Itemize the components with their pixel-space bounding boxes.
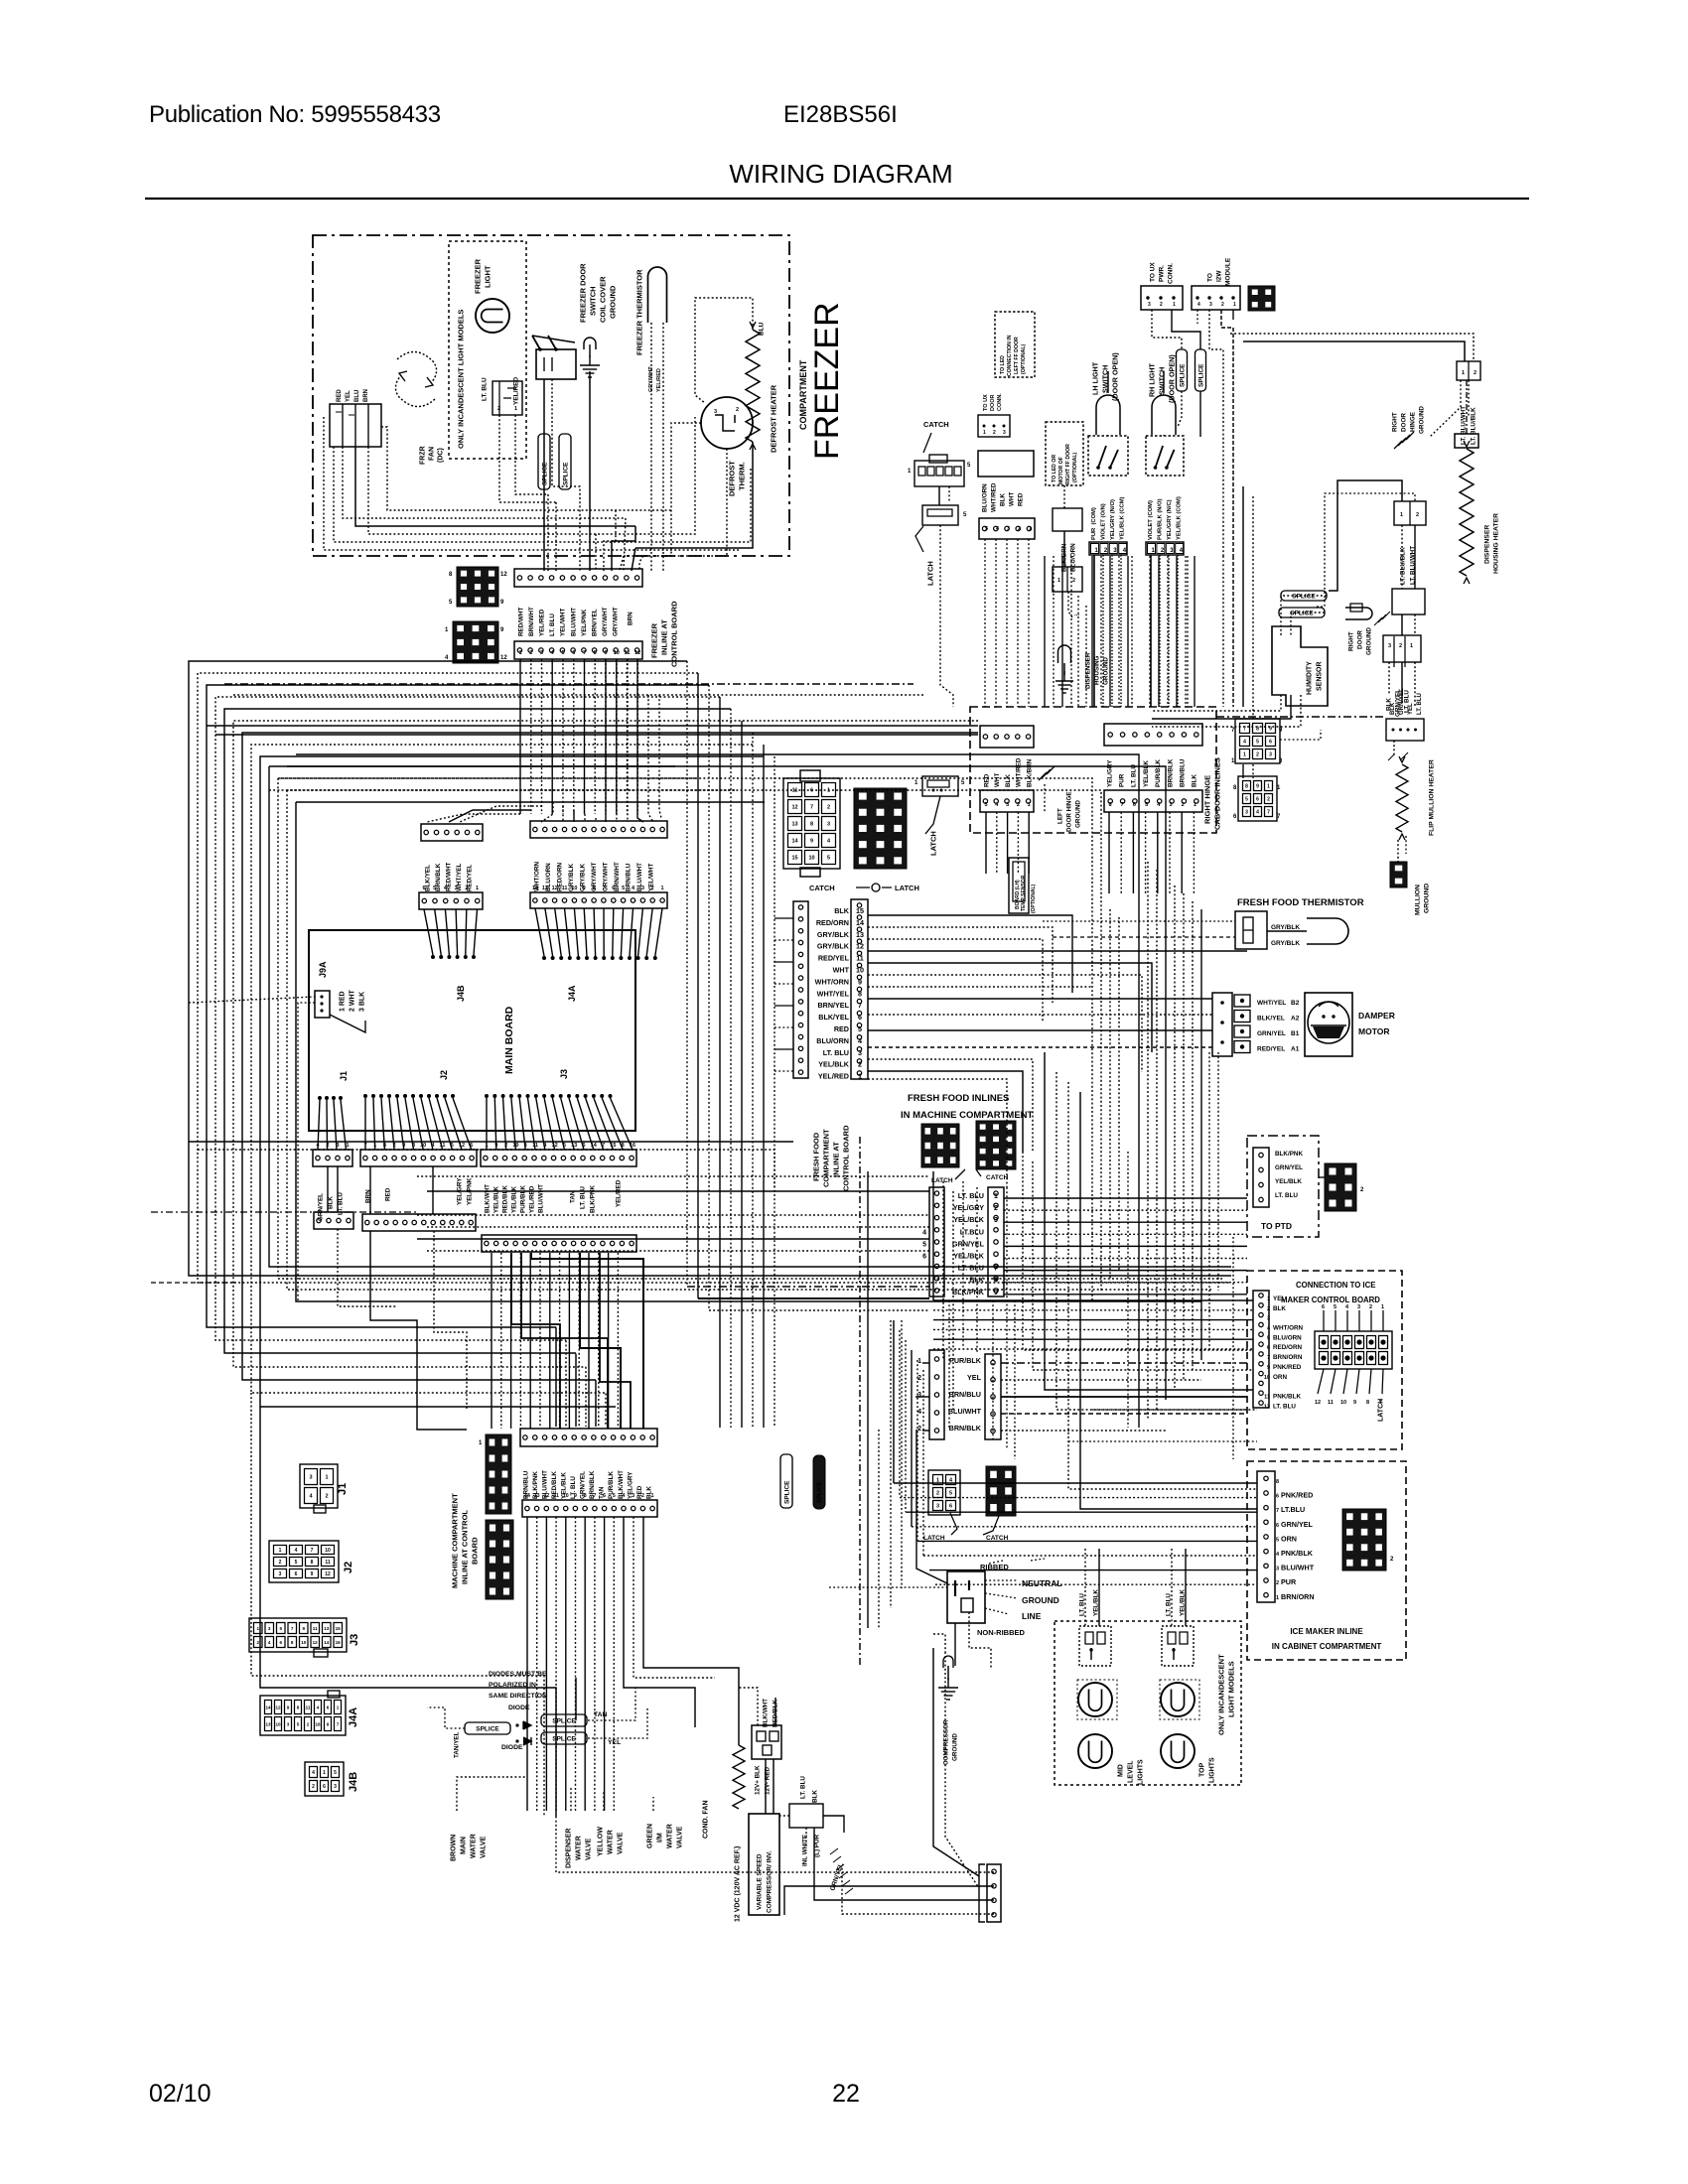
label machine compartment inline <box>451 1493 480 1588</box>
freezer inline lower strip <box>514 641 642 659</box>
svg-text:EI28BS56I: EI28BS56I <box>783 101 898 128</box>
ff thermistor connector <box>1235 911 1267 949</box>
svg-text:2: 2 <box>1416 512 1419 518</box>
svg-text:5: 5 <box>451 1143 454 1149</box>
svg-text:7: 7 <box>1243 727 1246 733</box>
svg-text:2: 2 <box>325 1494 328 1500</box>
svg-text:5: 5 <box>1276 1537 1279 1543</box>
damper connector <box>1212 993 1250 1056</box>
J1 wire labels <box>317 1192 344 1221</box>
svg-text:LT. BLU: LT. BLU <box>579 1186 586 1209</box>
cab-door right upper strip <box>1104 724 1202 746</box>
svg-text:1: 1 <box>325 1475 328 1481</box>
lt blu wht connector <box>1457 361 1480 380</box>
wire ff9 down verticals <box>949 1181 1015 1459</box>
wire switch drops to cab-door box <box>1045 556 1195 707</box>
machine inline upper strip <box>520 1429 657 1446</box>
svg-text:FREEZER: FREEZER <box>808 302 846 460</box>
svg-text:8: 8 <box>1256 727 1259 733</box>
label fresh food compartment inline <box>812 1125 851 1191</box>
svg-text:GROUND: GROUND <box>1022 1595 1059 1605</box>
svg-text:1: 1 <box>914 780 918 786</box>
label to ux pwr conn <box>1149 262 1174 284</box>
grn-yel hatch <box>830 1848 853 1894</box>
svg-text:5: 5 <box>295 1560 298 1566</box>
label mullion ground <box>1414 884 1430 915</box>
svg-text:BLK/YEL: BLK/YEL <box>818 1013 849 1022</box>
svg-text:12: 12 <box>500 572 507 578</box>
svg-text:J1: J1 <box>339 1071 349 1081</box>
wire elbow rows to ff9 <box>687 1287 929 1310</box>
svg-text:BLU/ORN: BLU/ORN <box>816 1036 849 1045</box>
svg-text:BLU: BLU <box>354 390 360 402</box>
rh switch pin strip <box>1146 542 1184 555</box>
svg-text:SENSOR: SENSOR <box>1317 661 1324 691</box>
svg-text:3: 3 <box>287 1722 290 1727</box>
svg-text:TOP: TOP <box>1199 1762 1206 1777</box>
svg-text:LT. BLU/BLK: LT. BLU/BLK <box>1470 407 1477 445</box>
svg-text:1: 1 <box>1194 802 1196 808</box>
svg-text:MACHINE COMPARTMENT: MACHINE COMPARTMENT <box>451 1493 460 1588</box>
svg-text:13: 13 <box>791 822 797 828</box>
flip mullion connector <box>1386 719 1424 741</box>
svg-text:14: 14 <box>791 839 798 845</box>
svg-text:4: 4 <box>312 1770 315 1776</box>
svg-text:ONLY INCANDESCENT LIGHT MODELS: ONLY INCANDESCENT LIGHT MODELS <box>457 310 466 449</box>
wire lh feeds <box>1094 555 1178 707</box>
svg-text:7: 7 <box>363 1143 366 1149</box>
svg-text:4: 4 <box>1243 740 1246 746</box>
lh switch pin strip <box>1089 542 1127 555</box>
svg-text:YEL/WHT: YEL/WHT <box>560 609 567 636</box>
svg-text:GRY/BLK: GRY/BLK <box>817 942 850 951</box>
cab-door 3x3 grid upper <box>1231 719 1283 764</box>
labels lt blu blk inl <box>799 1776 818 1803</box>
svg-text:BLU/WHT: BLU/WHT <box>570 608 577 636</box>
svg-text:3: 3 <box>994 1217 998 1224</box>
svg-text:13: 13 <box>265 1722 271 1727</box>
svg-text:BRN/BLK: BRN/BLK <box>1167 758 1174 787</box>
svg-text:12: 12 <box>634 650 640 656</box>
svg-text:FLIP MULLION HEATER: FLIP MULLION HEATER <box>1428 759 1435 836</box>
svg-text:BOARD (LH): BOARD (LH) <box>1015 880 1021 909</box>
svg-text:14: 14 <box>532 886 539 891</box>
label grn-wht yel-red small <box>648 366 662 392</box>
svg-text:16: 16 <box>315 1722 321 1727</box>
svg-text:12: 12 <box>552 886 558 891</box>
svg-text:3: 3 <box>334 1784 337 1790</box>
svg-text:1: 1 <box>337 1706 340 1710</box>
svg-text:J2: J2 <box>439 1070 449 1080</box>
svg-text:WHT/RED: WHT/RED <box>990 482 997 512</box>
label right door hinge ground top <box>1391 406 1425 434</box>
svg-text:5: 5 <box>561 650 564 656</box>
svg-text:CONTROL BOARD: CONTROL BOARD <box>670 601 679 667</box>
svg-text:02/10: 02/10 <box>149 2080 211 2108</box>
svg-text:5: 5 <box>1245 797 1248 803</box>
label coil cover ground <box>599 276 618 323</box>
svg-text:CONNECTION IN: CONNECTION IN <box>1007 335 1013 376</box>
freezer splice pills <box>538 434 571 489</box>
svg-text:INLINE AT CONTROL: INLINE AT CONTROL <box>461 1510 470 1584</box>
wire latch top lead <box>925 796 940 834</box>
svg-text:LEFT: LEFT <box>1056 808 1063 824</box>
svg-text:11: 11 <box>532 1143 538 1149</box>
latch connector mid <box>922 505 967 525</box>
svg-text:HUMIDITY: HUMIDITY <box>1307 661 1314 695</box>
svg-text:J3: J3 <box>559 1069 569 1079</box>
svg-text:5: 5 <box>967 463 971 469</box>
splice left <box>1177 349 1188 391</box>
svg-text:INL WHITE: INL WHITE <box>801 1835 808 1866</box>
svg-text:3: 3 <box>714 409 717 415</box>
temp sensor board box <box>1009 858 1037 913</box>
svg-text:3: 3 <box>1169 802 1172 808</box>
svg-text:9: 9 <box>583 886 586 891</box>
cab-door left upper strip <box>980 726 1034 748</box>
label fresh food inlines in machine compartment <box>901 1093 1034 1121</box>
wire right door ground drop <box>1430 380 1469 437</box>
svg-text:1: 1 <box>1029 526 1032 532</box>
svg-text:DOOR: DOOR <box>990 394 996 411</box>
svg-text:2: 2 <box>465 886 468 891</box>
J2 lower strip <box>362 1214 476 1231</box>
svg-text:1: 1 <box>373 1143 376 1149</box>
J3 strip <box>481 1150 636 1166</box>
svg-text:WHT: WHT <box>1008 492 1015 506</box>
svg-text:GRY/WHT: GRY/WHT <box>602 607 609 636</box>
svg-text:2: 2 <box>736 407 739 413</box>
catch latch legend <box>809 884 919 892</box>
svg-text:4: 4 <box>543 1143 547 1149</box>
svg-text:5: 5 <box>1334 1304 1336 1310</box>
machine inline pin strip <box>522 1500 657 1517</box>
wire heater feeds <box>1281 556 1469 635</box>
J4A upper strip <box>530 821 667 838</box>
ff inline left strip <box>793 901 808 1078</box>
svg-text:9: 9 <box>303 1626 306 1631</box>
svg-text:COMPRESSOR: COMPRESSOR <box>942 1719 949 1765</box>
svg-text:14: 14 <box>524 1493 530 1499</box>
svg-text:11: 11 <box>313 1626 318 1631</box>
svg-text:14: 14 <box>591 1143 598 1149</box>
wire ff inline right runs <box>868 915 1247 1187</box>
svg-text:DISPENSER: DISPENSER <box>1483 525 1490 564</box>
svg-text:GROUND: GROUND <box>1423 884 1430 913</box>
svg-text:TO UX: TO UX <box>1149 262 1156 282</box>
svg-text:6: 6 <box>1256 797 1259 803</box>
svg-text:5: 5 <box>334 1770 337 1776</box>
label yellow water valve <box>598 1827 625 1856</box>
svg-text:COIL COVER: COIL COVER <box>599 276 608 323</box>
ff inline right strip <box>851 899 868 1079</box>
svg-text:2: 2 <box>1160 302 1163 308</box>
svg-text:CONTROL BOARD: CONTROL BOARD <box>842 1125 851 1191</box>
svg-text:LT. BLU: LT. BLU <box>958 1191 984 1200</box>
svg-text:1: 1 <box>1057 578 1060 584</box>
svg-text:5: 5 <box>1145 802 1148 808</box>
svg-text:13: 13 <box>542 886 548 891</box>
svg-text:1: 1 <box>346 1143 349 1149</box>
svg-text:12: 12 <box>275 1706 281 1710</box>
svg-text:7: 7 <box>583 650 586 656</box>
to led connection dashed box <box>995 312 1035 377</box>
wire ff9pin to ice maker rows <box>1004 1198 1247 1295</box>
svg-text:BROWN: BROWN <box>451 1835 458 1861</box>
svg-text:YEL/BLK: YEL/BLK <box>1092 1589 1099 1616</box>
wire thermistor leads <box>651 323 663 571</box>
svg-text:RED/BLK: RED/BLK <box>501 1185 508 1213</box>
svg-text:9: 9 <box>327 1722 330 1727</box>
svg-text:11: 11 <box>325 1560 331 1566</box>
label top lights <box>1199 1757 1216 1783</box>
icm 12pin strip <box>1253 1291 1269 1408</box>
svg-text:5: 5 <box>622 886 625 891</box>
svg-text:YEL/GRY: YEL/GRY <box>953 1203 984 1212</box>
wire machine strip drops <box>527 1517 739 1811</box>
J4A wire labels <box>533 861 654 891</box>
svg-text:LT. BLU: LT. BLU <box>823 1048 849 1057</box>
machine inline wire labels <box>522 1470 652 1499</box>
svg-text:PUR/BLK: PUR/BLK <box>519 1185 526 1213</box>
svg-text:PWR.: PWR. <box>1158 265 1165 282</box>
label only incandescent bottom <box>1217 1654 1236 1735</box>
svg-text:6: 6 <box>1233 814 1237 820</box>
label lh light switch <box>1091 352 1120 401</box>
svg-text:RED/ORN: RED/ORN <box>816 918 849 927</box>
J3 pin numbers <box>485 1143 635 1149</box>
svg-text:9: 9 <box>500 600 504 606</box>
machine inline dark connector upper <box>479 1434 511 1514</box>
svg-text:15: 15 <box>336 1626 342 1631</box>
humidity splices <box>1279 591 1327 617</box>
J4A pin strip <box>530 892 667 908</box>
svg-text:9: 9 <box>1269 727 1272 733</box>
svg-text:IN MACHINE COMPARTMENT: IN MACHINE COMPARTMENT <box>901 1110 1034 1121</box>
plug lead dashes <box>985 1559 1045 1614</box>
svg-text:1: 1 <box>518 650 521 656</box>
defrost thermostat circle <box>701 397 753 449</box>
splice box left <box>465 1722 510 1734</box>
labels lt blu-blk pair <box>1399 546 1416 585</box>
wire ux to splices <box>1152 310 1200 437</box>
svg-text:11: 11 <box>553 1493 559 1499</box>
svg-text:GROUND: GROUND <box>1365 627 1372 655</box>
svg-text:BRN/ORN: BRN/ORN <box>1281 1592 1315 1601</box>
svg-text:9: 9 <box>1256 784 1259 790</box>
svg-text:COMPARTMENT: COMPARTMENT <box>798 359 808 430</box>
svg-text:4: 4 <box>922 1229 926 1236</box>
cab-door 3x3 grid lower <box>1233 776 1281 821</box>
svg-text:LINE: LINE <box>1022 1611 1042 1621</box>
wire cab-door through <box>986 812 1194 893</box>
svg-text:PNK/BLK: PNK/BLK <box>1281 1549 1314 1558</box>
svg-text:6: 6 <box>1322 1304 1325 1310</box>
svg-text:LH LIGHT: LH LIGHT <box>1091 361 1100 395</box>
wire valve horizontal ties <box>457 1777 653 1811</box>
svg-text:12V+ BLK: 12V+ BLK <box>754 1765 761 1795</box>
label lt. blu / yel-red <box>481 377 519 405</box>
svg-text:THERM.: THERM. <box>738 462 747 490</box>
freezer thermistor capsule <box>648 267 667 323</box>
ff inlines catch grid <box>976 1121 1016 1169</box>
svg-text:1: 1 <box>1277 785 1281 791</box>
svg-text:10: 10 <box>1264 1375 1270 1381</box>
svg-text:PNK/BLK: PNK/BLK <box>1273 1394 1301 1401</box>
wire humidity leads <box>1152 695 1301 727</box>
wire top right solid run <box>1243 341 1465 361</box>
svg-text:BOARD: BOARD <box>471 1537 480 1565</box>
svg-text:A1: A1 <box>1291 1046 1300 1053</box>
svg-text:3: 3 <box>936 1504 939 1510</box>
svg-text:4: 4 <box>995 802 999 808</box>
svg-text:5: 5 <box>1256 740 1259 746</box>
svg-text:1: 1 <box>1276 1595 1279 1601</box>
svg-text:DAMPER: DAMPER <box>1358 1011 1395 1021</box>
wire bottom splice pills <box>780 1454 825 1509</box>
svg-text:2: 2 <box>936 1491 939 1497</box>
svg-text:3: 3 <box>827 822 830 828</box>
svg-text:10: 10 <box>614 650 620 656</box>
power plug connector <box>947 1571 985 1623</box>
label catch top <box>923 420 949 453</box>
svg-text:BLK/PNK: BLK/PNK <box>1275 1151 1303 1158</box>
svg-text:RED/WHT: RED/WHT <box>517 607 524 636</box>
J2-J2 link wires <box>370 1166 433 1214</box>
labels l pur inl white <box>801 1834 820 1866</box>
svg-text:6: 6 <box>280 1640 283 1645</box>
svg-text:FREEZER: FREEZER <box>474 258 483 294</box>
latch grid lower-left <box>923 1470 960 1542</box>
splice right <box>1196 349 1206 391</box>
svg-text:12: 12 <box>500 655 507 661</box>
svg-text:2: 2 <box>312 1784 315 1790</box>
svg-text:3: 3 <box>1003 430 1006 436</box>
svg-text:8: 8 <box>858 989 862 998</box>
wire j3 to ff9 horizontals <box>151 1176 929 1283</box>
svg-text:7: 7 <box>602 886 605 891</box>
svg-text:2: 2 <box>858 1060 862 1069</box>
svg-text:6: 6 <box>582 1143 585 1149</box>
svg-text:GRY/BLK: GRY/BLK <box>817 930 850 939</box>
dispenser housing ground symbol <box>1055 645 1073 693</box>
wire imi feeders vertical <box>894 1320 923 1556</box>
label freezer inline at control board <box>650 601 679 667</box>
svg-text:8: 8 <box>622 1143 625 1149</box>
svg-text:6: 6 <box>1276 1494 1279 1500</box>
svg-text:SPLICE: SPLICE <box>562 462 569 485</box>
freezer inline dark connector lower <box>445 621 507 663</box>
labels above incandescent box <box>1078 1589 1186 1616</box>
svg-text:3: 3 <box>455 886 458 891</box>
svg-text:11: 11 <box>1328 1400 1334 1406</box>
svg-text:12: 12 <box>856 942 864 951</box>
svg-text:1 RED: 1 RED <box>340 991 347 1012</box>
wire splice to 1-2 box <box>1317 480 1415 620</box>
J1 strip <box>313 1150 352 1166</box>
wire freezer light leads <box>499 415 556 502</box>
wire J3 stepped drops <box>511 1253 643 1429</box>
svg-text:16: 16 <box>336 1640 342 1645</box>
svg-text:YEL/BLK: YEL/BLK <box>510 1186 517 1213</box>
svg-text:FRESH FOOD INLINES: FRESH FOOD INLINES <box>908 1093 1009 1104</box>
J4A pin numbers <box>532 886 664 891</box>
svg-text:4: 4 <box>1276 1552 1280 1558</box>
labels blk-wht red-blk <box>762 1699 778 1727</box>
svg-text:5: 5 <box>433 886 436 891</box>
svg-text:WHT/YEL: WHT/YEL <box>1257 1000 1286 1007</box>
svg-text:BLU/ORN: BLU/ORN <box>981 483 988 512</box>
svg-text:8: 8 <box>594 650 597 656</box>
svg-text:5: 5 <box>949 1491 952 1497</box>
svg-text:VIOLET (COM): VIOLET (COM) <box>1148 500 1154 540</box>
svg-text:5: 5 <box>827 856 830 862</box>
J4B fan-in wires <box>424 909 478 959</box>
ff inlines latch grid <box>921 1124 959 1167</box>
purblk right strip <box>985 1354 1001 1439</box>
lh switch wire labels <box>1091 496 1126 540</box>
svg-text:CATCH: CATCH <box>986 1174 1009 1181</box>
label to i2w module <box>1206 257 1231 286</box>
svg-text:SPLICE: SPLICE <box>783 1480 790 1504</box>
wire drops into J4B <box>427 806 542 822</box>
svg-text:RIGHT FF DOOR: RIGHT FF DOOR <box>1065 444 1071 484</box>
label cond fan <box>703 1801 710 1840</box>
svg-text:BLK: BLK <box>1273 1305 1286 1312</box>
svg-text:7: 7 <box>337 1722 340 1727</box>
freezer inline upper strip <box>514 569 642 587</box>
freezer light dashed box <box>449 241 526 459</box>
svg-text:4: 4 <box>431 1143 435 1149</box>
svg-text:2: 2 <box>993 430 996 436</box>
svg-text:1: 1 <box>1173 302 1176 308</box>
svg-text:SPLICE: SPLICE <box>476 1726 499 1733</box>
svg-text:VALVE: VALVE <box>618 1832 625 1854</box>
svg-text:6: 6 <box>922 1254 926 1261</box>
lamp dashed frames <box>1077 1680 1199 1719</box>
svg-text:BLK: BLK <box>834 906 850 915</box>
machine inline pin numbers <box>524 1493 654 1499</box>
J1 pin numbers <box>316 1143 349 1149</box>
left catch box <box>978 451 1034 477</box>
svg-text:TO PTD: TO PTD <box>1261 1221 1292 1231</box>
svg-text:SAME DIRECTION: SAME DIRECTION <box>489 1693 547 1700</box>
ice maker inline dashed box <box>1247 1461 1406 1660</box>
svg-text:LT. BLU: LT. BLU <box>1165 1593 1172 1616</box>
svg-text:1: 1 <box>1381 1304 1384 1310</box>
svg-text:TO UX: TO UX <box>983 394 989 411</box>
incandescent dashed box bottom <box>1055 1621 1241 1785</box>
svg-text:BLK/BRN: BLK/BRN <box>1027 758 1034 787</box>
svg-text:11: 11 <box>625 650 631 656</box>
svg-text:VALVE: VALVE <box>586 1838 593 1860</box>
svg-text:RIGHT: RIGHT <box>1347 631 1354 651</box>
svg-text:1: 1 <box>983 430 986 436</box>
svg-text:1: 1 <box>1400 512 1403 518</box>
svg-text:9: 9 <box>858 977 862 986</box>
svg-text:B1: B1 <box>1291 1030 1300 1037</box>
labels above flip mullion <box>1390 688 1423 715</box>
svg-text:10: 10 <box>301 1640 307 1645</box>
ff inline wire labels <box>815 906 864 1081</box>
wire catch strip drops <box>939 486 1029 707</box>
svg-text:YEL/RED: YEL/RED <box>818 1072 849 1081</box>
svg-text:RED: RED <box>337 389 343 402</box>
svg-text:4: 4 <box>268 1640 271 1645</box>
svg-text:1: 1 <box>1243 752 1246 758</box>
ff thermistor labels <box>1271 924 1300 947</box>
dispenser housing heater terminal <box>1455 434 1478 448</box>
